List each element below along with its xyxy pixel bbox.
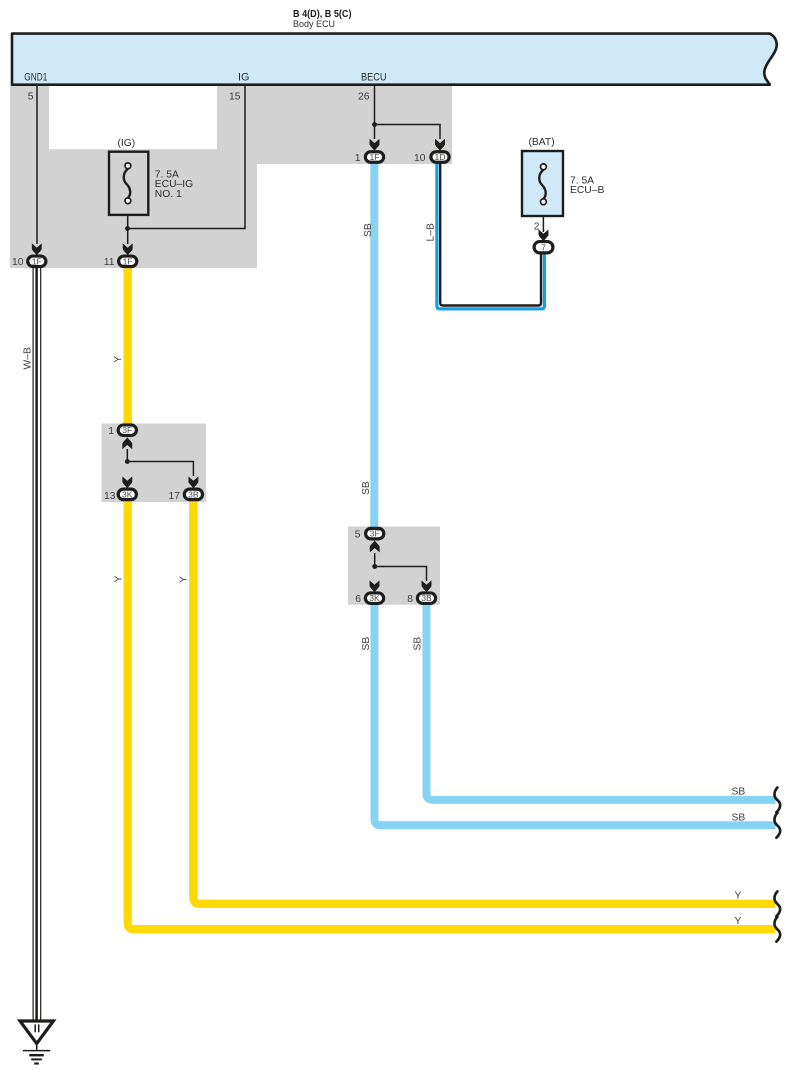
svg-text:6: 6 — [355, 594, 361, 605]
svg-text:13: 13 — [104, 491, 116, 502]
svg-text:SB: SB — [732, 812, 746, 823]
svg-text:SB: SB — [363, 223, 374, 237]
svg-text:BECU: BECU — [361, 72, 387, 84]
svg-text:L–B: L–B — [426, 223, 437, 241]
svg-text:3K: 3K — [122, 489, 133, 499]
svg-text:3B: 3B — [188, 489, 199, 499]
svg-text:5: 5 — [355, 529, 361, 540]
svg-text:8: 8 — [407, 594, 413, 605]
svg-text:(BAT): (BAT) — [529, 137, 555, 148]
svg-text:7: 7 — [541, 242, 546, 252]
svg-text:Y: Y — [735, 890, 742, 901]
svg-text:3F: 3F — [370, 529, 380, 539]
svg-text:Y: Y — [735, 916, 742, 927]
svg-text:GND1: GND1 — [24, 72, 47, 84]
svg-text:W–B: W–B — [23, 347, 34, 369]
svg-text:Y: Y — [114, 576, 125, 583]
svg-text:SB: SB — [732, 787, 746, 798]
svg-text:11: 11 — [104, 257, 115, 268]
svg-text:SB: SB — [361, 637, 372, 651]
svg-text:Y: Y — [113, 356, 124, 363]
svg-text:26: 26 — [358, 91, 370, 102]
svg-text:SB: SB — [412, 637, 423, 651]
svg-text:1F: 1F — [32, 256, 42, 266]
svg-text:17: 17 — [169, 491, 181, 502]
svg-text:(IG): (IG) — [118, 138, 136, 149]
svg-text:1: 1 — [108, 426, 114, 437]
svg-text:3K: 3K — [369, 593, 380, 603]
svg-text:3B: 3B — [421, 593, 432, 603]
svg-text:1: 1 — [355, 153, 361, 164]
svg-text:Body ECU: Body ECU — [293, 18, 335, 29]
svg-text:1D: 1D — [435, 152, 446, 162]
svg-text:ECU–B: ECU–B — [570, 185, 604, 196]
svg-text:IG: IG — [238, 72, 249, 84]
svg-text:NO. 1: NO. 1 — [155, 189, 182, 200]
svg-text:5: 5 — [28, 91, 34, 102]
svg-text:3F: 3F — [122, 425, 132, 435]
svg-text:15: 15 — [229, 91, 241, 102]
svg-text:1F: 1F — [369, 152, 379, 162]
svg-text:Y: Y — [179, 576, 190, 583]
svg-text:10: 10 — [12, 257, 24, 268]
svg-text:SB: SB — [361, 481, 372, 495]
svg-text:10: 10 — [414, 153, 426, 164]
svg-text:1F: 1F — [123, 256, 133, 266]
